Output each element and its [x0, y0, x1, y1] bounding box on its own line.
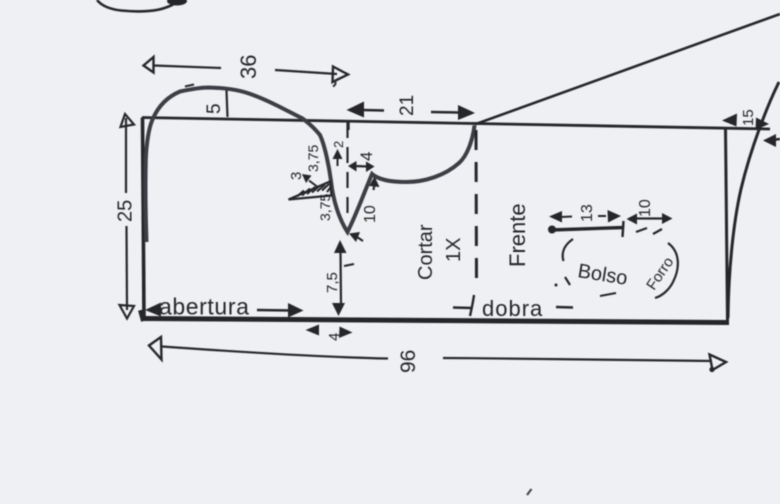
dobra dash right — [556, 306, 573, 309]
rectangle top edge — [142, 118, 770, 130]
dimension 10 double arrow — [633, 217, 666, 219]
dimension 36 right arrowhead — [333, 67, 349, 83]
dimension 21 right arrow — [431, 111, 459, 114]
tiny slash bottom centre — [527, 489, 532, 495]
svg-text:3,75: 3,75 — [317, 194, 333, 221]
arrow below top edge pointing left — [772, 139, 780, 140]
rectangle left edge — [143, 118, 145, 321]
small dash right of 7,5 — [344, 264, 354, 266]
svg-text:7,5: 7,5 — [324, 272, 341, 293]
dimension 21 left arrow — [363, 109, 384, 112]
dimension 13 right arrow — [598, 215, 606, 217]
small dimension 4 below bottom edge — [306, 325, 320, 336]
Forro closing paren — [655, 243, 678, 298]
svg-text:3,75: 3,75 — [305, 145, 321, 172]
svg-text:dobra: dobra — [482, 296, 543, 321]
dark blob on ellipse — [167, 0, 187, 6]
bottom left corner blob — [141, 310, 144, 321]
dimension 96 right arrowhead — [710, 355, 727, 371]
abertura shaft — [257, 309, 291, 312]
7,5 up arrowhead — [334, 240, 347, 253]
svg-text:1X: 1X — [443, 238, 465, 262]
dimension 36 left shaft — [154, 66, 221, 69]
dimension 25 upper shaft — [125, 118, 127, 193]
arrow to corner of v — [374, 184, 375, 190]
abertura right arrow — [288, 303, 304, 318]
dimension 96 left shaft — [162, 347, 388, 359]
dimension 96 left arrowhead — [149, 337, 162, 360]
svg-text:Cortar: Cortar — [415, 224, 437, 280]
svg-text:Frente: Frente — [505, 203, 530, 267]
dashes below 10 — [636, 228, 647, 232]
dimension 15 right arrow — [756, 118, 770, 131]
fold dashed line (dobra) — [475, 130, 479, 290]
svg-text:abertura: abertura — [159, 294, 249, 320]
dimension 7,5 vertical shaft — [339, 250, 342, 306]
dimension 96 right shaft — [443, 358, 712, 361]
shoulder diagonal line to top right — [475, 14, 780, 125]
main shoulder/neck curve — [146, 88, 475, 243]
small hook mark above edge — [333, 80, 336, 87]
Bolso dot — [555, 284, 558, 287]
peak tick 5 — [227, 91, 228, 118]
dimension 25 top arrowhead — [121, 114, 135, 127]
svg-text:15: 15 — [740, 109, 757, 126]
right side seam curve — [728, 82, 779, 318]
svg-text:13: 13 — [579, 204, 596, 222]
Bolso opening paren — [563, 239, 573, 261]
dart centre dashed line — [346, 122, 348, 214]
top partial ellipse (adjacent pattern piece) — [97, 0, 178, 11]
rectangle bottom edge — [141, 319, 729, 323]
svg-text:3: 3 — [288, 172, 305, 180]
svg-text:2: 2 — [331, 141, 346, 148]
svg-text:21: 21 — [397, 95, 418, 116]
pencil dash left of peak — [185, 85, 194, 87]
svg-text:10: 10 — [637, 199, 654, 217]
dimension 25 bottom arrowhead — [120, 305, 135, 319]
tick below top edge at dart centre — [347, 120, 349, 130]
arrow to v tip — [357, 237, 363, 241]
dimension 15 left arrow — [722, 114, 737, 127]
pocket line left blob — [548, 226, 556, 234]
svg-text:36: 36 — [236, 55, 261, 79]
rectangle right inner edge — [726, 129, 728, 323]
svg-text:5: 5 — [204, 103, 225, 114]
svg-text:4: 4 — [357, 152, 376, 161]
dobra dash left — [453, 306, 472, 309]
Bolso small tick — [565, 277, 570, 285]
dart hatched triangle — [289, 182, 332, 200]
pocket line — [551, 228, 624, 231]
dimension 25 lower shaft — [125, 226, 128, 310]
Bolso underline — [600, 293, 616, 296]
svg-text:10: 10 — [362, 205, 379, 223]
dobra tick — [470, 295, 474, 316]
abertura left arrow — [145, 303, 161, 317]
pocket line right tick — [623, 221, 624, 237]
dimension 36 left arrowhead — [144, 57, 154, 73]
dimension 13 left arrow — [549, 211, 562, 223]
7,5 down arrowhead — [332, 303, 345, 316]
dimension 36 right shaft — [275, 70, 337, 74]
svg-text:25: 25 — [115, 200, 137, 222]
svg-text:96: 96 — [397, 350, 420, 373]
